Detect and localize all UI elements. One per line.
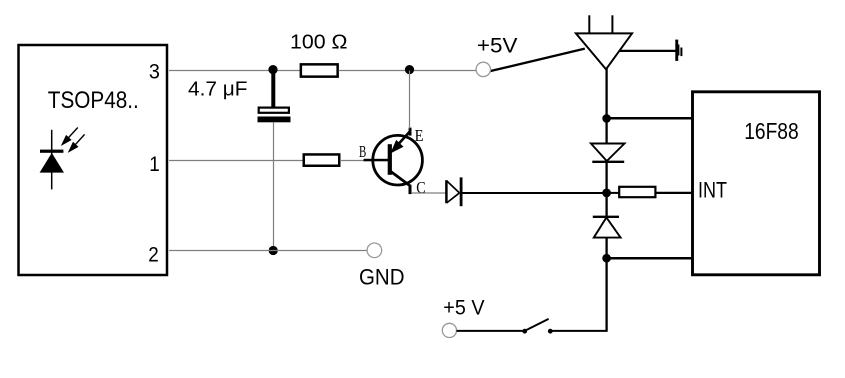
- diode D2: [446, 177, 462, 206]
- junction node F: [602, 254, 611, 263]
- svg-text:3: 3: [149, 61, 160, 84]
- svg-text:16F88: 16F88: [744, 118, 799, 144]
- wire pin3 to node A: [169, 70, 271, 72]
- svg-text:INT: INT: [698, 177, 727, 202]
- diode D4: [593, 217, 621, 238]
- junction node C: [602, 114, 611, 123]
- wire node E to R3: [607, 192, 620, 194]
- junction node B: [405, 65, 414, 74]
- svg-text:E: E: [415, 126, 424, 145]
- wire +5V bottom to S2: [457, 330, 523, 332]
- wire vertical bus: [605, 69, 607, 331]
- terminal +5V bottom: [442, 323, 456, 337]
- wire R3 to U2 INT: [657, 192, 695, 194]
- resistor R2: [304, 154, 340, 165]
- svg-text:TSOP48..: TSOP48..: [48, 87, 139, 114]
- wire R2 to Q1 base: [340, 160, 365, 162]
- IC U2 16F88 body: [693, 92, 820, 275]
- junction node E: [602, 189, 611, 198]
- wire pin1 to R2: [169, 160, 303, 162]
- junction node D: [269, 246, 278, 255]
- svg-text:C: C: [416, 178, 425, 197]
- wire node A to R1: [278, 70, 302, 72]
- resistor R1: [301, 64, 338, 76]
- terminal GND: [367, 243, 382, 258]
- wire node C to U2: [607, 117, 694, 120]
- diode D3: [591, 144, 625, 162]
- wire node F to U2: [607, 257, 694, 260]
- svg-text:B: B: [359, 142, 366, 161]
- op-amp U3: [576, 15, 632, 69]
- wire node B down to Q1 emitter: [409, 71, 411, 129]
- wire node B to +5V terminal: [414, 70, 476, 72]
- wire D2 to node E: [462, 192, 607, 194]
- terminal +5V top: [476, 62, 490, 76]
- svg-text:+5 V: +5 V: [443, 295, 485, 319]
- svg-text:100 Ω: 100 Ω: [290, 31, 348, 54]
- resistor R3: [619, 187, 655, 197]
- wire C1 down to node D: [273, 122, 275, 250]
- svg-text:2: 2: [148, 244, 159, 267]
- junction node A: [268, 65, 277, 74]
- wire pin2 to GND terminal: [169, 250, 367, 252]
- wire U3 output: [620, 50, 676, 52]
- svg-text:4.7 μF: 4.7 μF: [188, 77, 248, 100]
- switch S1 blade: [490, 49, 585, 72]
- wire S2 to bus: [552, 330, 608, 332]
- svg-text:GND: GND: [359, 265, 405, 290]
- switch S2: [522, 319, 552, 334]
- wire Q1 collector to D2: [411, 192, 445, 194]
- svg-text:1: 1: [149, 153, 160, 176]
- photodiode D1 light arrows: [61, 128, 85, 153]
- capacitor C1: [258, 70, 291, 122]
- transistor Q1: [364, 128, 423, 195]
- svg-text:+5V: +5V: [477, 35, 518, 58]
- wire R1 to node B: [339, 70, 406, 72]
- cell/ground symbol: [675, 40, 682, 61]
- photodiode D1: [40, 130, 64, 190]
- IC U1 TSOP48.. body: [19, 45, 168, 275]
